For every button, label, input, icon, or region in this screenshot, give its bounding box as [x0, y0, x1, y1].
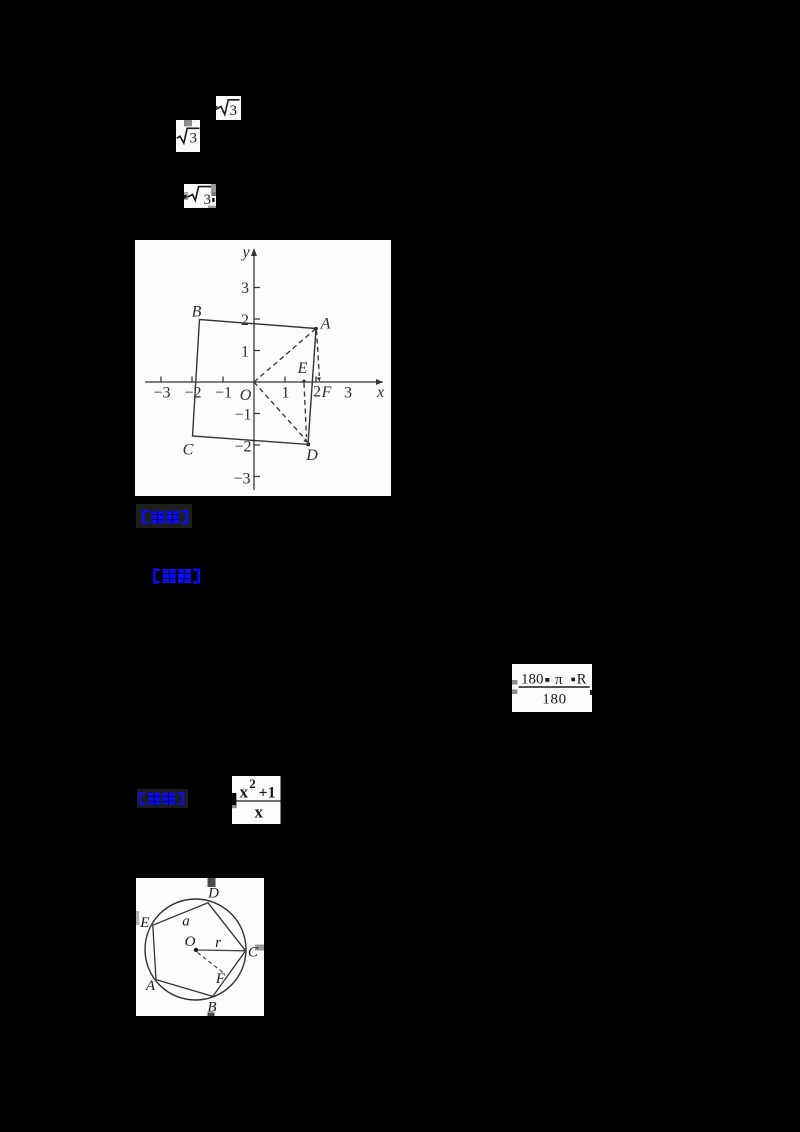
svg-text:−1: −1	[215, 385, 232, 402]
svg-text:F: F	[215, 971, 226, 987]
svg-text:1: 1	[282, 385, 290, 402]
svg-text:O: O	[185, 934, 196, 950]
svg-text:B: B	[192, 303, 202, 320]
pentagon ABCDE	[153, 903, 246, 997]
sqrt(3) equation image 2	[176, 120, 200, 152]
blue tag 3 on gray box	[137, 789, 188, 808]
circle	[145, 899, 246, 1000]
svg-text:A: A	[145, 978, 156, 994]
dashed E-D	[304, 383, 307, 437]
svg-text:3: 3	[229, 103, 237, 119]
svg-text:−2: −2	[234, 439, 251, 456]
svg-text:r: r	[215, 935, 221, 951]
letter labels	[183, 244, 384, 464]
formula image (180.pi.R)/180	[512, 664, 592, 712]
svg-text:D: D	[207, 886, 219, 902]
x ticks	[160, 377, 162, 383]
axis arrowheads	[376, 379, 383, 385]
dashed O-D	[254, 382, 306, 440]
svg-text:C: C	[183, 442, 194, 459]
svg-text:1: 1	[241, 344, 249, 361]
labels	[139, 886, 259, 1016]
svg-text:π: π	[555, 672, 563, 688]
svg-text:+1: +1	[259, 784, 276, 801]
svg-text:a: a	[182, 914, 190, 930]
number labels	[153, 280, 352, 488]
svg-text:y: y	[240, 244, 250, 261]
svg-text:x: x	[255, 802, 264, 821]
svg-text:F: F	[321, 384, 332, 401]
svg-text:3: 3	[241, 280, 249, 297]
svg-text:2: 2	[241, 312, 249, 329]
dashed O-A	[254, 329, 316, 383]
coordinate-plane graph image	[135, 240, 391, 496]
svg-text:180: 180	[521, 672, 544, 688]
y axis	[253, 253, 255, 490]
svg-text:E: E	[139, 915, 149, 931]
svg-text:x: x	[376, 384, 384, 401]
svg-text:3: 3	[190, 130, 198, 146]
radius O-C	[196, 949, 246, 952]
svg-text:D: D	[305, 447, 318, 464]
svg-text:−1: −1	[234, 407, 251, 424]
svg-text:A: A	[320, 316, 331, 333]
svg-text:x: x	[240, 782, 249, 801]
y ticks	[254, 287, 260, 289]
svg-text:−2: −2	[184, 385, 201, 402]
svg-text:B: B	[207, 1000, 216, 1016]
svg-text:R: R	[576, 672, 586, 688]
dashed A-F with arrow	[317, 330, 320, 376]
point dots	[314, 327, 318, 331]
blue tag 1 on gray box	[136, 504, 192, 528]
circle with inscribed pentagon image	[136, 878, 264, 1016]
blue tag 2	[153, 568, 200, 584]
svg-text:−3: −3	[233, 471, 250, 488]
svg-text:3: 3	[344, 385, 352, 402]
svg-text:2: 2	[249, 776, 256, 791]
svg-text:180: 180	[542, 691, 566, 707]
svg-text:C: C	[248, 945, 259, 961]
center dot	[194, 948, 198, 952]
svg-text:3: 3	[204, 191, 212, 207]
svg-text:O: O	[240, 387, 252, 404]
svg-text:2: 2	[313, 384, 321, 401]
svg-text:−3: −3	[153, 385, 170, 402]
sqrt(3) equation image 1	[216, 96, 241, 120]
dashed O-F	[198, 953, 224, 973]
square ABCD	[193, 320, 317, 445]
fraction image (x^2+1)/x	[232, 776, 281, 825]
svg-text:E: E	[297, 360, 308, 377]
gray artifacts	[208, 878, 216, 887]
x axis	[145, 381, 383, 383]
sqrt(3) equation image 3	[184, 184, 216, 209]
